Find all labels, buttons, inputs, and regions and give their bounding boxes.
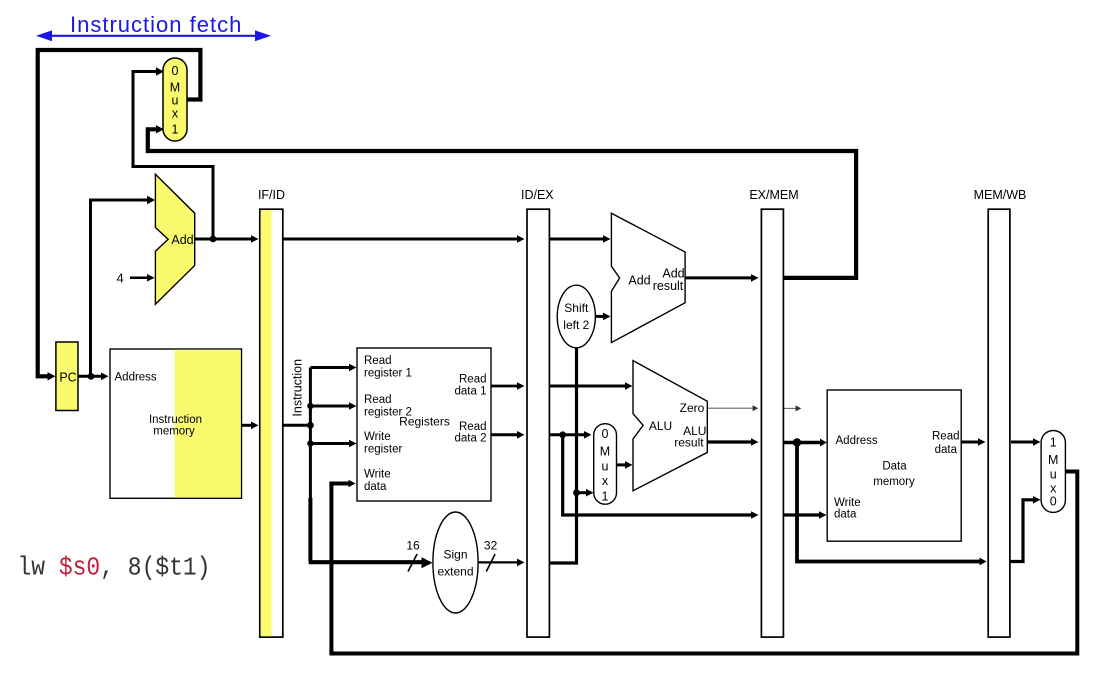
adder Add result: [611, 213, 685, 342]
node: PC output junction: [88, 373, 95, 380]
wire: PC to instruction memory address: [77, 375, 103, 378]
shift left 2: [557, 285, 595, 348]
svg-text:0: 0: [602, 427, 609, 441]
svg-text:result: result: [653, 279, 684, 293]
svg-text:Read: Read: [364, 355, 392, 367]
svg-text:Write: Write: [364, 469, 391, 481]
wire: PC to Add upper input: [91, 200, 150, 376]
sign extend: [433, 512, 478, 613]
wire: write back loop to registers write data: [331, 472, 1077, 654]
wire: Zero flag thin: [708, 407, 754, 409]
wire: ALU mux output to ALU: [617, 463, 628, 466]
svg-text:x: x: [172, 107, 179, 121]
svg-text:0: 0: [1050, 495, 1057, 509]
mux M3 (MemtoReg): [1041, 431, 1065, 513]
wire: MEM/WB to WB mux input 1: [1011, 441, 1035, 444]
wire: branch address EX/MEM to mux input 1: [148, 129, 856, 278]
stage span double arrow: [36, 30, 271, 41]
svg-text:Address: Address: [115, 372, 157, 384]
svg-text:MEM/WB: MEM/WB: [974, 188, 1027, 202]
data memory: [827, 390, 961, 541]
node: instruction bus junctions: [307, 403, 313, 409]
svg-text:data: data: [834, 509, 857, 521]
adder Add (yellow): [155, 174, 194, 304]
wire: read data 1 to ID/EX and ALU: [491, 385, 519, 388]
wire: bypass MEM/WB to WB mux input 0: [1011, 500, 1035, 562]
svg-text:data: data: [364, 481, 387, 493]
pipeline register EX/MEM: [761, 209, 783, 637]
wire: PC+4 ID/EX to Add result upper input: [549, 238, 605, 241]
node: ALU result branch: [793, 438, 801, 446]
ALU: [633, 361, 707, 491]
svg-text:extend: extend: [437, 565, 473, 579]
svg-text:Instruction: Instruction: [149, 414, 202, 426]
wire: mux output loop to PC: [38, 50, 201, 376]
svg-text:IF/ID: IF/ID: [258, 188, 285, 202]
svg-text:1: 1: [602, 490, 609, 504]
wire: read data 2 to ID/EX and ALU mux: [491, 433, 519, 436]
svg-text:1: 1: [172, 123, 179, 137]
svg-text:16: 16: [406, 538, 420, 552]
svg-text:Data: Data: [882, 461, 907, 473]
svg-text:Address: Address: [836, 435, 878, 447]
svg-text:Read: Read: [459, 374, 487, 386]
svg-text:PC: PC: [59, 371, 76, 385]
wire: PC+4 IF/ID to ID/EX: [284, 238, 520, 241]
svg-text:memory: memory: [153, 426, 195, 438]
mux M1 (PCSrc, yellow): [163, 58, 187, 141]
svg-text:result: result: [674, 436, 704, 450]
svg-text:data: data: [935, 444, 958, 456]
node: Add output junction: [210, 236, 217, 243]
svg-text:Instruction fetch: Instruction fetch: [70, 12, 242, 37]
wire: instruction bus from IF/ID: [284, 368, 352, 501]
wire: constant 4 to Add lower input: [130, 277, 149, 280]
wire: shift left 2 to Add result lower input: [595, 315, 605, 318]
pipeline register ID/EX: [527, 209, 549, 637]
svg-text:Read: Read: [364, 394, 392, 406]
svg-text:x: x: [602, 474, 609, 488]
svg-text:data 1: data 1: [455, 386, 487, 398]
svg-text:32: 32: [484, 538, 498, 552]
wire: ALU result to EX/MEM: [708, 440, 754, 443]
node: immediate branch: [573, 489, 580, 496]
wire: write data path to EX/MEM and data memory: [563, 435, 753, 515]
svg-text:ID/EX: ID/EX: [521, 188, 554, 202]
wire: Add result output to EX/MEM: [685, 276, 753, 279]
title Instruction fetch: [70, 12, 242, 37]
wire: EX/MEM to data memory address: [784, 441, 820, 445]
pipeline register IF/ID: [260, 209, 283, 637]
svg-text:ALU: ALU: [649, 419, 672, 433]
mux M2 (ALUSrc): [594, 424, 617, 505]
svg-text:memory: memory: [873, 476, 915, 488]
svg-text:EX/MEM: EX/MEM: [749, 188, 798, 202]
svg-text:left 2: left 2: [563, 318, 589, 332]
wire: ALU result bypass to MEM/WB: [797, 443, 980, 562]
svg-text:1: 1: [1050, 436, 1057, 450]
svg-text:x: x: [1050, 482, 1057, 496]
svg-text:Read: Read: [459, 421, 487, 433]
svg-text:4: 4: [117, 271, 124, 286]
svg-text:M: M: [600, 445, 610, 459]
svg-text:Registers: Registers: [399, 415, 450, 429]
svg-text:0: 0: [172, 64, 179, 78]
svg-text:Sign: Sign: [443, 548, 467, 562]
svg-text:M: M: [1048, 453, 1058, 467]
svg-text:register 1: register 1: [364, 368, 412, 380]
register PC (yellow): [56, 342, 78, 411]
wire: Add output to IF/ID: [193, 238, 253, 241]
svg-text:u: u: [1050, 468, 1057, 482]
registers file: [357, 348, 491, 501]
node: read data 2 branch: [559, 431, 566, 438]
svg-text:u: u: [172, 94, 179, 108]
svg-text:lw $s0, 8($t1): lw $s0, 8($t1): [18, 554, 211, 583]
pipeline register MEM/WB: [988, 209, 1010, 637]
wire: instruction memory to IF/ID: [242, 424, 254, 427]
svg-text:Write: Write: [364, 431, 391, 443]
svg-text:Zero: Zero: [680, 401, 705, 415]
wire: PC+4 from Add output to mux input 0: [133, 72, 213, 240]
svg-text:Add: Add: [171, 233, 193, 247]
svg-text:Write: Write: [834, 497, 861, 509]
svg-text:Add: Add: [628, 274, 650, 288]
svg-text:Read: Read: [932, 431, 960, 443]
wire: sign extend output to ID/EX: [478, 561, 519, 563]
svg-text:register: register: [364, 444, 403, 456]
svg-text:Shift: Shift: [564, 301, 589, 315]
wire: data memory read data to MEM/WB: [961, 441, 980, 444]
svg-text:M: M: [170, 81, 180, 95]
svg-text:data 2: data 2: [455, 433, 487, 445]
instruction memory: [110, 349, 242, 498]
svg-text:u: u: [602, 460, 609, 474]
svg-text:Instruction: Instruction: [291, 359, 305, 417]
wire: immediate from ID/EX up to shift left 2 and ALU mux 1: [549, 347, 577, 563]
